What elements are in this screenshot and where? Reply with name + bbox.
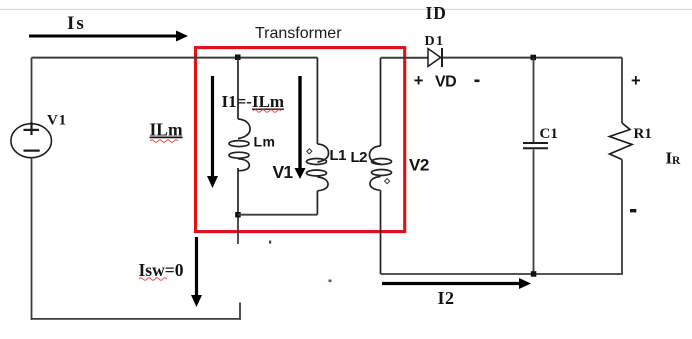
polarity mark L2 bbox=[385, 179, 390, 184]
current arrow ILm bbox=[207, 76, 218, 188]
svg-text:L1: L1 bbox=[330, 147, 347, 164]
transformer boundary box (red) bbox=[196, 48, 405, 232]
wire C1 upper bbox=[533, 58, 535, 142]
current arrow Is bbox=[29, 31, 188, 42]
node junction bottom center-tap bbox=[235, 212, 241, 218]
svg-text:ID: ID bbox=[426, 3, 447, 23]
inductor Lm bbox=[229, 58, 250, 214]
svg-text:R: R bbox=[672, 155, 681, 167]
wire transformer bottom bbox=[238, 214, 317, 216]
stray red mark bbox=[329, 280, 332, 283]
svg-text:D1: D1 bbox=[425, 34, 445, 49]
svg-text:I1=-ILm: I1=-ILm bbox=[222, 92, 285, 111]
node junction top center-tap bbox=[235, 55, 241, 61]
node junction bottom C1 bbox=[531, 271, 537, 277]
label Isw=0 bbox=[139, 260, 184, 280]
label - output bbox=[630, 209, 636, 212]
wire bottom right rail bbox=[381, 273, 623, 275]
stray mark near switch bbox=[269, 241, 271, 244]
svg-text:V1: V1 bbox=[47, 113, 67, 129]
svg-text:C1: C1 bbox=[540, 126, 558, 142]
wire bottom left rail bbox=[31, 318, 240, 320]
svg-text:VD: VD bbox=[435, 74, 456, 91]
wire left vertical upper bbox=[31, 58, 33, 122]
label ILm bbox=[150, 120, 183, 143]
svg-text:L2: L2 bbox=[351, 149, 368, 166]
wire R1 upper bbox=[621, 58, 623, 123]
wire left vertical lower bbox=[31, 158, 33, 320]
diode D1 bbox=[428, 48, 442, 67]
svg-text:ILm: ILm bbox=[150, 120, 183, 140]
svg-text:+: + bbox=[631, 72, 641, 90]
svg-text:V2: V2 bbox=[409, 156, 429, 175]
svg-text:+: + bbox=[414, 72, 424, 90]
svg-text:I2: I2 bbox=[438, 288, 455, 308]
current arrow Isw bbox=[191, 237, 202, 307]
wire switch stub bbox=[239, 303, 241, 320]
polarity mark L1 bbox=[307, 149, 312, 154]
wire R1 lower bbox=[621, 160, 623, 275]
svg-text:V1: V1 bbox=[273, 162, 294, 182]
capacitor C1 bbox=[523, 143, 548, 148]
wire center tap lower bbox=[237, 214, 239, 244]
node junction top C1 bbox=[531, 55, 537, 61]
current arrow I2 bbox=[382, 278, 531, 289]
wire diode to right bbox=[443, 57, 622, 59]
inductor L1 bbox=[307, 58, 329, 215]
current arrow V1 primary bbox=[295, 76, 306, 179]
svg-text:R1: R1 bbox=[634, 126, 652, 142]
wire L2 to diode bbox=[381, 57, 429, 59]
inductor L2 bbox=[369, 58, 391, 274]
svg-text:Transformer: Transformer bbox=[255, 25, 342, 42]
svg-text:Is: Is bbox=[67, 13, 86, 34]
voltage source V1 bbox=[11, 122, 52, 158]
svg-text:Lm: Lm bbox=[254, 134, 276, 150]
wire C1 lower bbox=[533, 150, 535, 275]
resistor R1 bbox=[610, 123, 633, 160]
svg-text:Isw=0: Isw=0 bbox=[139, 260, 184, 280]
label IR bbox=[666, 149, 682, 168]
label + VD - bbox=[414, 72, 480, 91]
wire top rail primary bbox=[32, 57, 318, 59]
label I1=-ILm bbox=[222, 92, 285, 112]
